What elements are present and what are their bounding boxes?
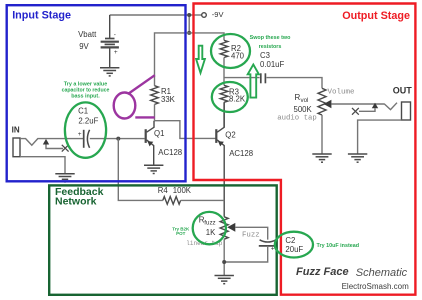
- annotation swap arrow up: [248, 65, 259, 98]
- input jack J1: [13, 138, 20, 157]
- ground input jack: [55, 174, 74, 182]
- annotation balloon (purple): [114, 75, 155, 118]
- resistor R4 100K: [163, 197, 181, 205]
- input stage box: [7, 5, 186, 181]
- svg-text:ElectroSmash.com: ElectroSmash.com: [342, 282, 409, 291]
- wire output switch stem: [359, 108, 375, 111]
- potentiometer Rfuzz 1K: [220, 217, 228, 239]
- node Rfuzz bottom / C2 / ground: [222, 260, 226, 264]
- wire out jack sleeve to ground: [358, 120, 402, 154]
- wire C2 to ground node: [224, 246, 268, 262]
- note: B2K pot: [172, 226, 190, 236]
- wire jack tip contact: [20, 139, 83, 146]
- note: swop resistors: [250, 35, 291, 50]
- svg-text:Swop these two: Swop these two: [250, 35, 291, 41]
- -9V terminal: [202, 13, 207, 18]
- svg-text:Input Stage: Input Stage: [12, 9, 71, 21]
- wiper arrow Rfuzz: [227, 223, 235, 232]
- svg-text:OUT: OUT: [393, 86, 413, 96]
- svg-text:Fuzz Face: Fuzz Face: [296, 266, 349, 278]
- wire feedback from Q1 base down: [118, 139, 163, 201]
- annotation swap arrow down: [196, 46, 205, 73]
- transistor Q2 AC128: [216, 102, 224, 217]
- switch contact arrow (input): [43, 139, 49, 145]
- resistor R3 8.2K: [220, 85, 228, 102]
- svg-text:IN: IN: [12, 125, 20, 134]
- wire junction to R1 top: [155, 33, 190, 86]
- svg-text:1K: 1K: [206, 228, 216, 237]
- resistor R2 470: [220, 40, 228, 57]
- wire junction drop: [188, 15, 190, 33]
- svg-text:Q2: Q2: [225, 130, 235, 139]
- transistor Q1 AC128: [146, 121, 154, 166]
- svg-text:Try a lower value: Try a lower value: [64, 81, 107, 87]
- resistor R1 33K: [151, 86, 159, 105]
- svg-text:500K: 500K: [294, 105, 313, 114]
- svg-text:audio tap: audio tap: [277, 114, 316, 122]
- svg-text:9V: 9V: [79, 42, 89, 51]
- svg-text:R4: R4: [158, 186, 169, 195]
- capacitor C2 20uF: [260, 240, 276, 242]
- svg-text:2.2uF: 2.2uF: [78, 117, 98, 126]
- svg-text:C2: C2: [285, 236, 295, 245]
- svg-text:C1: C1: [78, 107, 88, 116]
- svg-text:100K: 100K: [173, 186, 192, 195]
- ground fuzz pot: [215, 276, 234, 284]
- ground output jack: [348, 154, 367, 162]
- battery Vbatt 9V: [101, 15, 119, 68]
- svg-text:33K: 33K: [161, 95, 176, 104]
- potentiometer Rvol 500K: [318, 88, 326, 115]
- svg-text:Schematic: Schematic: [356, 267, 408, 279]
- wire switch stem: [46, 145, 63, 149]
- svg-text:resistors: resistors: [259, 44, 282, 50]
- svg-text:POT: POT: [176, 231, 186, 236]
- svg-text:bass input.: bass input.: [71, 94, 100, 100]
- X mark input switch: [62, 145, 69, 152]
- svg-text:Output Stage: Output Stage: [342, 10, 410, 22]
- node Q1 base / feedback tap: [116, 137, 120, 141]
- svg-text:Network: Network: [55, 195, 97, 207]
- capacitor C1 2.2uF: [83, 130, 85, 148]
- wire R4 to Q2 emitter: [181, 199, 225, 201]
- annotation circle C1: [65, 102, 106, 157]
- wire fuzz wiper to C2: [235, 227, 268, 239]
- annotation circle Rfuzz: [193, 212, 226, 244]
- wire junction to R2 top: [189, 33, 224, 40]
- output jack J2: [402, 102, 411, 120]
- annotation circle C2: [275, 232, 313, 258]
- svg-text:-: -: [114, 31, 116, 38]
- svg-text:0.01uF: 0.01uF: [260, 60, 285, 69]
- svg-text:Try 10uF instead: Try 10uF instead: [317, 243, 360, 249]
- svg-text:8.2K: 8.2K: [229, 95, 246, 104]
- annotation circle R2: [211, 34, 250, 68]
- node supply junction: [187, 13, 191, 17]
- svg-text:Volume: Volume: [328, 88, 355, 96]
- wire R2/R3 node to C3: [224, 77, 260, 79]
- svg-text:-9V: -9V: [212, 10, 224, 19]
- svg-text:470: 470: [231, 52, 245, 61]
- svg-text:fuzz: fuzz: [204, 219, 215, 226]
- svg-text:AC128: AC128: [158, 148, 182, 157]
- ground volume pot: [312, 154, 331, 162]
- svg-text:Fuzz: Fuzz: [242, 232, 260, 240]
- svg-text:Vbatt: Vbatt: [78, 30, 97, 39]
- node R1/R2 feed junction: [187, 31, 191, 35]
- svg-text:vol: vol: [301, 97, 309, 104]
- ground Q1 emitter: [144, 165, 163, 173]
- wire C3 to volume pot: [267, 78, 323, 89]
- wiper arrow Rvol: [324, 100, 332, 109]
- switch contact arrow (output): [372, 103, 378, 109]
- svg-text:+: +: [78, 131, 82, 138]
- feedback network box: [49, 185, 277, 294]
- output stage box: [194, 4, 416, 295]
- capacitor C3 0.01uF: [260, 73, 262, 83]
- wire wiper to out jack: [332, 103, 385, 105]
- svg-text:Q1: Q1: [154, 129, 164, 138]
- out jack tip contact: [384, 103, 397, 110]
- wire jack sleeve to ground: [20, 157, 65, 174]
- svg-text:20uF: 20uF: [285, 245, 303, 254]
- note: lower value capacitor: [62, 81, 110, 99]
- svg-text:AC128: AC128: [229, 149, 253, 158]
- wire C1 to Q1 base: [90, 138, 145, 140]
- svg-text:+: +: [114, 49, 118, 56]
- svg-text:C3: C3: [260, 51, 270, 60]
- annotation circle R3: [212, 82, 248, 112]
- ground battery: [100, 68, 119, 76]
- wire -9V rail from battery to junction: [110, 14, 190, 16]
- X mark output switch: [352, 108, 359, 115]
- wire to -9V terminal: [189, 14, 201, 16]
- wire Q1 collector to Q2 base: [155, 121, 216, 139]
